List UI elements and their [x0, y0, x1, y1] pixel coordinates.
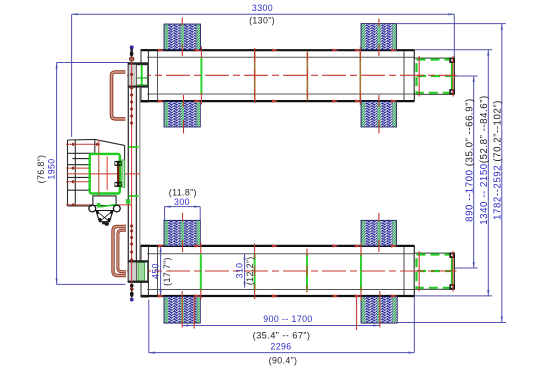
svg-text:(90.4”): (90.4”) [269, 355, 298, 365]
svg-text:450: 450 [151, 263, 161, 279]
svg-text:1340 -- 2150(52.8” --84.6”): 1340 -- 2150(52.8” --84.6”) [479, 95, 490, 225]
svg-text:(17.7”): (17.7”) [162, 257, 172, 286]
svg-text:900 -- 1700: 900 -- 1700 [263, 314, 312, 324]
svg-text:3300: 3300 [252, 3, 273, 13]
svg-text:1782--2592 (70.2”--102”): 1782--2592 (70.2”--102”) [493, 100, 504, 220]
svg-text:(130”): (130”) [249, 16, 275, 26]
svg-text:(12.2”): (12.2”) [245, 256, 255, 285]
svg-text:300: 300 [174, 197, 190, 207]
svg-text:310: 310 [234, 263, 244, 279]
svg-text:(11.8”): (11.8”) [169, 187, 197, 197]
svg-text:1950: 1950 [46, 158, 56, 179]
svg-text:890 --1700 (35.0” --66.9”): 890 --1700 (35.0” --66.9”) [465, 98, 476, 222]
svg-text:2296: 2296 [270, 342, 291, 352]
svg-text:(35.4” -- 67”): (35.4” -- 67”) [253, 331, 311, 341]
svg-text:(76.8”): (76.8”) [36, 155, 46, 184]
